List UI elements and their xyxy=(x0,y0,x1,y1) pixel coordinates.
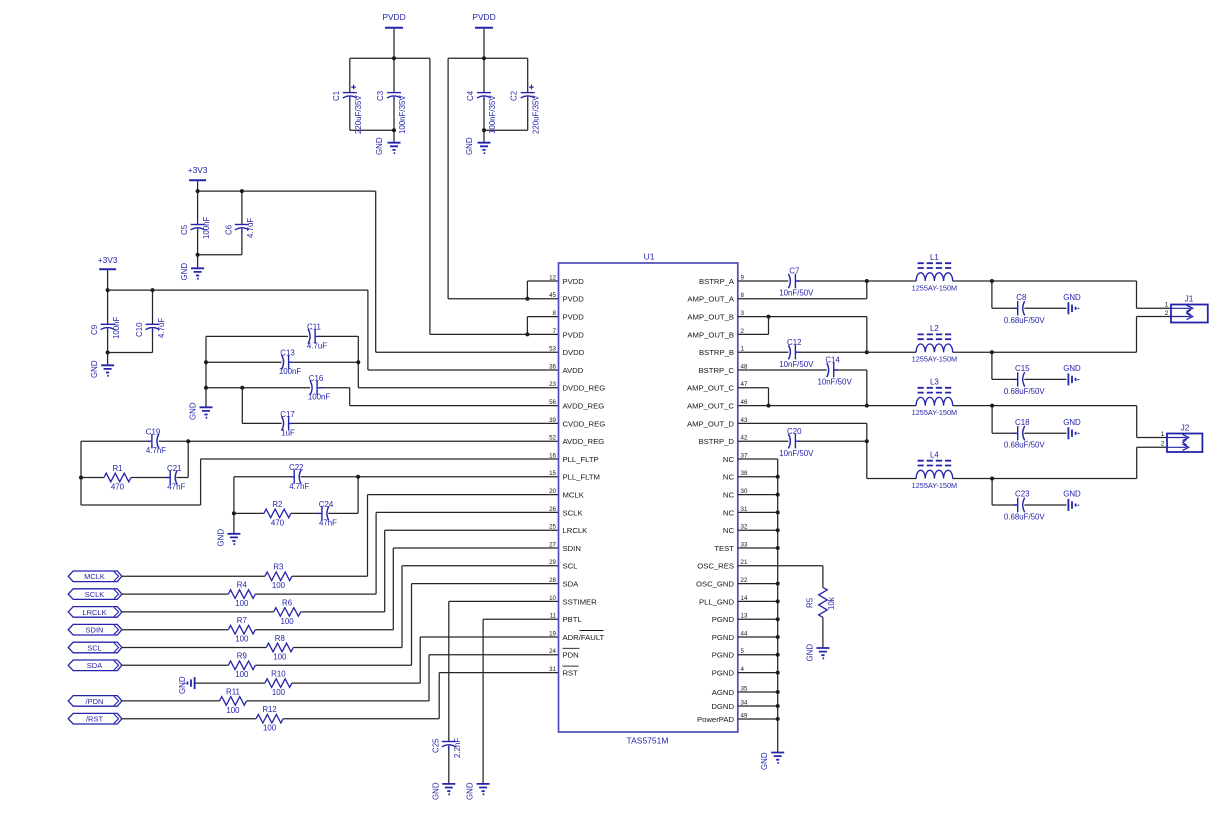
svg-text:27: 27 xyxy=(549,541,556,548)
ground symbol below R5 xyxy=(816,648,829,658)
wire net LRCLK: tag through R6 up to IC pin xyxy=(122,530,559,612)
svg-text:47nF: 47nF xyxy=(319,518,337,527)
svg-text:35: 35 xyxy=(741,685,748,692)
input tag /RST xyxy=(68,713,122,724)
resistor R12 (100) xyxy=(256,714,283,723)
svg-text:BSTRP_B: BSTRP_B xyxy=(699,348,734,357)
svg-text:12: 12 xyxy=(549,274,556,281)
junction C16 row left xyxy=(204,386,208,390)
resistor R8 (100) xyxy=(266,643,293,652)
capacitor C4 (100nF/35V) xyxy=(477,92,491,94)
wire net SDIN: tag through R7 up to IC pin xyxy=(122,548,559,630)
wire net SDA: tag through R9 up to IC pin xyxy=(122,584,559,666)
svg-text:SDA: SDA xyxy=(563,580,580,589)
wire net ADR/FAULT: ground through R10 up to IC pin xyxy=(195,637,559,683)
capacitor C8 (0.68uF/50V) xyxy=(1023,301,1025,315)
svg-text:/RST: /RST xyxy=(86,715,104,724)
svg-text:10: 10 xyxy=(549,595,556,602)
svg-text:PVDD: PVDD xyxy=(563,295,585,304)
ground symbol C5/C6 xyxy=(191,268,204,278)
svg-text:100: 100 xyxy=(281,617,295,626)
svg-text:1255AY-150M: 1255AY-150M xyxy=(912,408,957,417)
svg-text:GND: GND xyxy=(466,782,475,800)
svg-text:GND: GND xyxy=(189,402,198,420)
svg-text:L3: L3 xyxy=(930,378,939,387)
capacitor C6 (4.7uF) xyxy=(235,224,249,226)
capacitor C16 (100nF) xyxy=(310,381,312,395)
svg-text:SDIN: SDIN xyxy=(563,544,581,553)
svg-text:C14: C14 xyxy=(825,356,840,365)
svg-text:AMP_OUT_A: AMP_OUT_A xyxy=(687,295,734,304)
svg-text:SDA: SDA xyxy=(87,661,102,670)
junction bank2 bottom rail xyxy=(482,128,486,132)
junction PVDD pins 7/8 xyxy=(525,332,529,336)
svg-text:DVDD: DVDD xyxy=(563,348,585,357)
power symbol +3V3 (C5/C6) xyxy=(189,179,206,181)
ground symbol at C23 xyxy=(1068,499,1078,511)
svg-text:R4: R4 xyxy=(237,581,248,590)
wire net SCLK: tag through R4 up to IC pin xyxy=(122,512,559,594)
wire branch to C15 snubber xyxy=(992,352,1067,379)
svg-text:10nF/50V: 10nF/50V xyxy=(817,378,852,387)
svg-text:2: 2 xyxy=(741,328,745,335)
svg-text:AVDD_REG: AVDD_REG xyxy=(563,437,605,446)
junction C14 joins AMP_OUT_C row xyxy=(865,404,869,408)
svg-text:GND: GND xyxy=(1063,364,1081,373)
junction R1 row left xyxy=(79,476,83,480)
capacitor C12 (10nF/50V) xyxy=(788,345,790,359)
wire net BSTRP_B pin1 through C12 and L2 to J1 pin2 xyxy=(738,317,1171,353)
svg-text:GND: GND xyxy=(375,137,384,155)
capacitor C21 (47nF) xyxy=(175,470,177,484)
wire net BSTRP_A pin9 through C7 and L1 to J1 pin1 xyxy=(738,281,1171,308)
junction ground bus xyxy=(776,671,780,675)
svg-text:J2: J2 xyxy=(1181,424,1190,433)
junction C13 row left xyxy=(204,360,208,364)
svg-text:C3: C3 xyxy=(376,90,385,101)
svg-text:AGND: AGND xyxy=(712,688,735,697)
svg-text:0.68uF/50V: 0.68uF/50V xyxy=(1004,513,1046,522)
svg-text:20: 20 xyxy=(549,488,556,495)
svg-text:21: 21 xyxy=(741,559,748,566)
svg-text:C20: C20 xyxy=(787,427,802,436)
svg-text:C25: C25 xyxy=(431,738,440,753)
capacitor C15 (0.68uF/50V) xyxy=(1023,372,1025,386)
svg-text:10nF/50V: 10nF/50V xyxy=(779,449,814,458)
wire branch to C23 snubber xyxy=(992,479,1066,506)
svg-text:100: 100 xyxy=(272,688,286,697)
junction +3V3 rail at C5 xyxy=(196,189,200,193)
svg-text:DVDD_REG: DVDD_REG xyxy=(563,384,606,393)
svg-text:NC: NC xyxy=(723,491,735,500)
junction L2 output to C15 xyxy=(990,350,994,354)
svg-text:1255AY-150M: 1255AY-150M xyxy=(912,355,957,364)
svg-text:100nF: 100nF xyxy=(202,216,211,239)
svg-text:42: 42 xyxy=(741,435,748,442)
resistor R11 (100) xyxy=(220,697,247,706)
svg-text:C24: C24 xyxy=(319,500,334,509)
svg-text:37: 37 xyxy=(741,452,748,459)
connector J2 xyxy=(1167,424,1202,452)
svg-text:PLL_FLTP: PLL_FLTP xyxy=(563,455,599,464)
capacitor C24 (47nF) xyxy=(327,506,329,520)
svg-text:MCLK: MCLK xyxy=(84,572,105,581)
input tag SCLK xyxy=(68,589,122,600)
capacitor C2 (220uF/35V electrolytic) xyxy=(521,92,535,94)
junction ground bus xyxy=(776,704,780,708)
svg-text:4.7nF: 4.7nF xyxy=(146,446,166,455)
junction bank1 bottom rail xyxy=(392,128,396,132)
svg-text:1: 1 xyxy=(1161,431,1165,438)
capacitor C23 (0.68uF/50V) xyxy=(1023,498,1025,512)
junction C9 bottom ground xyxy=(106,351,110,355)
svg-text:C13: C13 xyxy=(280,349,295,358)
svg-text:31: 31 xyxy=(549,666,556,673)
svg-text:TEST: TEST xyxy=(714,544,734,553)
connector J1 xyxy=(1171,295,1208,323)
svg-text:CVDD_REG: CVDD_REG xyxy=(563,419,606,428)
wire net AMP_OUT_C pins 47/46 joined xyxy=(738,388,769,406)
junction ground bus xyxy=(776,546,780,550)
svg-text:AVDD_REG: AVDD_REG xyxy=(563,402,605,411)
svg-text:7: 7 xyxy=(553,328,557,335)
svg-text:SCLK: SCLK xyxy=(85,590,105,599)
svg-text:28: 28 xyxy=(549,577,556,584)
svg-text:47nF: 47nF xyxy=(167,483,185,492)
svg-text:GND: GND xyxy=(465,137,474,155)
svg-text:C12: C12 xyxy=(787,338,801,347)
wire net /RST: tag through R12 up to IC pin xyxy=(122,673,559,719)
ground symbol PBTL xyxy=(477,784,490,794)
svg-text:L2: L2 xyxy=(930,324,939,333)
svg-text:C16: C16 xyxy=(309,374,324,383)
wire net +3V3 rail C9/C10 to AVDD pin 36 xyxy=(108,270,559,370)
inductor L3 1255AY-150M xyxy=(912,378,957,417)
junction PVDD pins 45/12 xyxy=(525,297,529,301)
svg-text:PVDD: PVDD xyxy=(382,12,405,22)
inductor L2 1255AY-150M xyxy=(912,324,957,363)
input tag SDA xyxy=(68,660,122,671)
svg-text:R12: R12 xyxy=(262,705,276,714)
ground symbol bank2 xyxy=(478,143,491,153)
svg-text:2: 2 xyxy=(1165,310,1169,317)
junction ground bus xyxy=(776,475,780,479)
capacitor C19 (4.7nF) xyxy=(157,434,159,448)
svg-text:L4: L4 xyxy=(930,451,939,460)
junction rail at C9 xyxy=(106,288,110,292)
input tag SCL xyxy=(68,642,122,653)
svg-text:C23: C23 xyxy=(1015,490,1030,499)
resistor R10 (100) xyxy=(265,679,292,688)
svg-text:U1: U1 xyxy=(644,252,655,262)
wire net SCL: tag through R8 up to IC pin xyxy=(122,566,559,648)
svg-text:220uF/35V: 220uF/35V xyxy=(354,95,363,134)
wire net SSTIMER to C25 and ground xyxy=(449,601,559,784)
junction C13 row right xyxy=(356,360,360,364)
svg-text:R5: R5 xyxy=(805,597,814,608)
wire net PVDD bank1: drop, rails, cap leads, to IC pins 7/8 xyxy=(350,29,559,335)
svg-text:PGND: PGND xyxy=(712,669,735,678)
svg-text:PLL_FLTM: PLL_FLTM xyxy=(563,473,600,482)
svg-text:34: 34 xyxy=(741,699,748,706)
svg-text:C11: C11 xyxy=(307,323,321,332)
svg-text:0.68uF/50V: 0.68uF/50V xyxy=(1004,387,1046,396)
svg-text:36: 36 xyxy=(549,363,556,370)
ground symbol bank1 xyxy=(388,143,401,153)
svg-text:GND: GND xyxy=(1063,293,1081,302)
svg-text:11: 11 xyxy=(550,613,557,620)
svg-text:100nF: 100nF xyxy=(279,367,302,376)
wire net PLL_FLTM row with C22/R2/C24 and ground xyxy=(234,477,559,534)
junction C19/C21 right xyxy=(186,439,190,443)
capacitor C10 (4.7uF) xyxy=(146,323,160,325)
svg-text:GND: GND xyxy=(90,360,99,378)
svg-text:C5: C5 xyxy=(180,224,189,235)
ground symbol R2/C22 xyxy=(227,534,240,544)
junction C22 row right xyxy=(356,475,360,479)
wire net L4 row to J2 pin2 xyxy=(867,447,1167,478)
svg-text:38: 38 xyxy=(741,470,748,477)
power symbol +3V3 (C9/C10) xyxy=(99,268,116,270)
svg-text:C10: C10 xyxy=(135,322,144,337)
svg-text:22: 22 xyxy=(741,577,748,584)
wire net /PDN: tag through R11 up to IC pin xyxy=(122,655,559,701)
svg-text:0.68uF/50V: 0.68uF/50V xyxy=(1004,441,1046,450)
junction L4 output to C23 xyxy=(990,477,994,481)
junction L3 output to C18 xyxy=(990,404,994,408)
svg-text:R11: R11 xyxy=(226,687,240,696)
svg-text:8: 8 xyxy=(741,292,745,299)
junction AMP_OUT_B joins BSTRP_B row xyxy=(865,350,869,354)
svg-text:GND: GND xyxy=(805,644,814,662)
junction C5 bottom ground xyxy=(196,253,200,257)
svg-text:24: 24 xyxy=(549,648,556,655)
svg-text:NC: NC xyxy=(723,473,735,482)
svg-text:53: 53 xyxy=(549,346,556,353)
wire net AMP_OUT_A pin8 joining BSTRP_A row xyxy=(738,281,867,299)
junction ground bus xyxy=(776,635,780,639)
svg-text:NC: NC xyxy=(723,526,735,535)
svg-text:100: 100 xyxy=(263,724,277,733)
ground symbol C25 xyxy=(442,784,455,794)
svg-text:PDN: PDN xyxy=(563,651,579,660)
svg-text:R9: R9 xyxy=(237,652,248,661)
svg-text:1255AY-150M: 1255AY-150M xyxy=(912,481,957,490)
svg-text:AMP_OUT_C: AMP_OUT_C xyxy=(687,384,734,393)
wire net OSC_RES to R5 to ground xyxy=(738,566,823,648)
svg-text:100nF/35V: 100nF/35V xyxy=(488,95,497,134)
svg-text:C19: C19 xyxy=(146,428,161,437)
svg-text:56: 56 xyxy=(549,399,556,406)
ground symbol C9/C10 xyxy=(101,365,114,375)
svg-text:220uF/35V: 220uF/35V xyxy=(532,95,541,134)
capacitor C13 (100nF) xyxy=(282,355,284,369)
wire net AVDD_REG pin4 row with C19/C21 top xyxy=(81,441,559,505)
svg-text:R1: R1 xyxy=(112,464,122,473)
ground symbol at R10 row xyxy=(185,677,195,689)
junction L1 output to C8 xyxy=(990,279,994,283)
junction ground bus xyxy=(776,582,780,586)
input tag MCLK xyxy=(68,571,122,582)
capacitor C20 (10nF/50V) xyxy=(788,434,790,448)
svg-text:45: 45 xyxy=(549,292,556,299)
svg-text:31: 31 xyxy=(741,506,748,513)
svg-text:SCL: SCL xyxy=(563,562,579,571)
svg-text:470: 470 xyxy=(271,518,285,527)
svg-text:PGND: PGND xyxy=(712,633,735,642)
svg-text:R7: R7 xyxy=(237,616,247,625)
svg-text:9: 9 xyxy=(741,274,745,281)
svg-text:AMP_OUT_D: AMP_OUT_D xyxy=(687,419,734,428)
svg-text:NC: NC xyxy=(723,508,735,517)
svg-text:4.7uF: 4.7uF xyxy=(157,318,166,338)
junction AMP_OUT_C pins join xyxy=(767,404,771,408)
svg-text:100: 100 xyxy=(226,706,240,715)
svg-text:BSTRP_A: BSTRP_A xyxy=(699,277,735,286)
junction ground bus xyxy=(776,617,780,621)
capacitor C18 (0.68uF/50V) xyxy=(1023,426,1025,440)
svg-text:25: 25 xyxy=(549,524,556,531)
capacitor C1 (220uF/35V electrolytic) xyxy=(343,92,357,94)
power symbol PVDD bank1 xyxy=(385,27,403,29)
svg-text:1uF: 1uF xyxy=(281,429,295,438)
svg-text:10nF/50V: 10nF/50V xyxy=(779,289,814,298)
junction ground bus xyxy=(776,690,780,694)
svg-text:16: 16 xyxy=(549,452,556,459)
svg-text:100: 100 xyxy=(235,599,249,608)
capacitor C14 (10nF/50V) xyxy=(827,363,829,377)
wire net AVDD_REG with C16: row, step to pin 56 xyxy=(206,388,559,406)
svg-text:C4: C4 xyxy=(466,90,475,101)
svg-text:GND: GND xyxy=(180,263,189,281)
svg-text:PLL_GND: PLL_GND xyxy=(699,597,734,606)
svg-text:AMP_OUT_C: AMP_OUT_C xyxy=(687,402,734,411)
svg-text:PVDD: PVDD xyxy=(563,330,585,339)
resistor R9 (100) xyxy=(228,661,255,670)
wire net PBTL to ground xyxy=(483,619,558,784)
svg-text:100nF: 100nF xyxy=(112,316,121,339)
svg-text:+3V3: +3V3 xyxy=(98,255,118,265)
wire net MCLK: tag through R3 up to IC pin xyxy=(122,495,559,577)
junction R2 row left xyxy=(232,511,236,515)
ground symbol at C18 xyxy=(1068,427,1078,439)
svg-text:PowerPAD: PowerPAD xyxy=(697,715,734,724)
input tag SDIN xyxy=(68,624,122,635)
svg-text:4.7nF: 4.7nF xyxy=(289,482,309,491)
inductor L4 1255AY-150M xyxy=(912,451,957,490)
wire net AMP_OUT_B pins 3/2 joined, down to BSTRP_B row xyxy=(738,317,867,353)
ground symbol at C8 xyxy=(1068,302,1078,314)
wire net AMP_OUT_C row through L3 to J2 pin1 xyxy=(738,406,1167,438)
wire net BSTRP_D pin42 through C20 xyxy=(738,440,867,442)
wire net +3V3 rail C5/C6 to DVDD pin 53 xyxy=(198,181,559,352)
junction AMP_OUT_A join xyxy=(865,279,869,283)
svg-text:13: 13 xyxy=(741,613,748,620)
svg-text:AVDD: AVDD xyxy=(563,366,584,375)
svg-text:BSTRP_C: BSTRP_C xyxy=(699,366,735,375)
svg-text:TAS5751M: TAS5751M xyxy=(627,736,669,746)
resistor R1 (470) xyxy=(104,473,131,482)
svg-text:4.7uF: 4.7uF xyxy=(246,218,255,238)
svg-text:C22: C22 xyxy=(289,463,303,472)
svg-text:+3V3: +3V3 xyxy=(188,165,208,175)
capacitor C7 (10nF/50V) xyxy=(788,274,790,288)
capacitor C17 (1uF) xyxy=(282,416,284,430)
svg-text:SDIN: SDIN xyxy=(86,626,104,635)
svg-text:PVDD: PVDD xyxy=(563,313,585,322)
svg-text:PVDD: PVDD xyxy=(472,12,495,22)
svg-text:49: 49 xyxy=(741,712,748,719)
svg-text:C7: C7 xyxy=(789,267,799,276)
svg-text:0.68uF/50V: 0.68uF/50V xyxy=(1004,316,1046,325)
svg-text:ADR/FAULT: ADR/FAULT xyxy=(563,633,605,642)
svg-text:43: 43 xyxy=(741,417,748,424)
svg-text:23: 23 xyxy=(549,381,556,388)
svg-text:PGND: PGND xyxy=(712,651,735,660)
overline on RST xyxy=(563,665,579,667)
svg-text:GND: GND xyxy=(431,782,440,800)
junction AMP_OUT_B pins join xyxy=(767,315,771,319)
svg-text:SCL: SCL xyxy=(87,643,102,652)
resistor R2 (470) xyxy=(264,509,291,518)
wire branch to C18 snubber xyxy=(992,406,1066,434)
svg-text:C21: C21 xyxy=(167,464,181,473)
svg-text:8: 8 xyxy=(553,310,557,317)
overline on FAULT of pin ADR/FAULT xyxy=(580,630,604,632)
wire net PVDD bank2: drop, rails, cap leads, to IC pins 45/12 xyxy=(448,29,558,299)
svg-text:100: 100 xyxy=(273,652,287,661)
svg-text:15: 15 xyxy=(549,470,556,477)
wire net DVDD_REG with C11/C13: rows and verticals xyxy=(206,336,559,407)
capacitor C25 (2.2nF) xyxy=(442,741,456,743)
svg-text:4.7uF: 4.7uF xyxy=(307,341,327,350)
resistor R5 (10k) xyxy=(819,587,828,617)
wire net NC/TEST/GND pins to common ground bus xyxy=(738,459,778,753)
svg-text:C15: C15 xyxy=(1015,364,1030,373)
capacitor C3 (100nF/35V) xyxy=(387,92,401,94)
svg-text:19: 19 xyxy=(549,630,556,637)
svg-text:10k: 10k xyxy=(827,597,836,610)
capacitor C9 (100nF) xyxy=(101,323,115,325)
ground symbol bus bottom xyxy=(771,753,784,763)
svg-text:PVDD: PVDD xyxy=(563,277,585,286)
svg-text:100nF/35V: 100nF/35V xyxy=(398,95,407,134)
junction ground bus xyxy=(776,653,780,657)
overline on PDN xyxy=(563,647,580,649)
svg-text:RST: RST xyxy=(563,669,579,678)
resistor R3 (100) xyxy=(265,572,292,581)
svg-text:C18: C18 xyxy=(1015,418,1030,427)
svg-text:44: 44 xyxy=(741,630,748,637)
svg-text:1255AY-150M: 1255AY-150M xyxy=(912,283,957,292)
svg-text:C1: C1 xyxy=(332,91,341,101)
svg-text:30: 30 xyxy=(741,488,748,495)
svg-text:/PDN: /PDN xyxy=(86,697,104,706)
svg-text:LRCLK: LRCLK xyxy=(563,526,589,535)
svg-text:C2: C2 xyxy=(510,91,519,101)
op-amp / IC U1 TAS5751M body xyxy=(559,263,738,732)
svg-text:26: 26 xyxy=(549,506,556,513)
svg-text:BSTRP_D: BSTRP_D xyxy=(699,437,735,446)
wire branch to C8 snubber xyxy=(992,281,1067,308)
svg-text:47: 47 xyxy=(741,381,748,388)
svg-text:PBTL: PBTL xyxy=(563,615,583,624)
junction ground bus xyxy=(776,493,780,497)
svg-text:C17: C17 xyxy=(280,410,294,419)
svg-text:4: 4 xyxy=(741,666,745,673)
svg-text:J1: J1 xyxy=(1185,295,1194,304)
resistor R6 (100) xyxy=(274,608,301,617)
